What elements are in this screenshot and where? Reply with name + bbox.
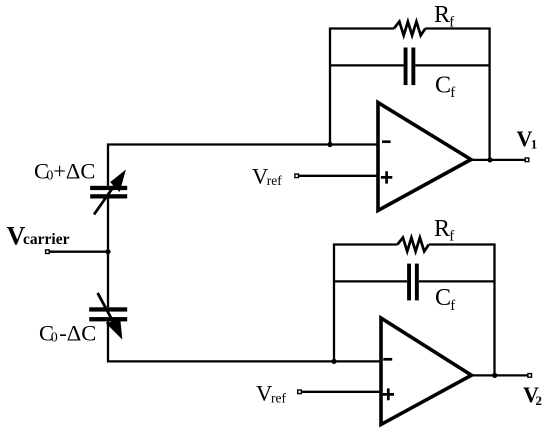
svg-text:ref: ref bbox=[267, 173, 282, 188]
svg-text:f: f bbox=[450, 298, 455, 314]
svg-text:carrier: carrier bbox=[23, 231, 70, 248]
svg-text:C: C bbox=[435, 72, 451, 98]
svg-text:2: 2 bbox=[536, 393, 543, 408]
svg-text:0: 0 bbox=[51, 331, 58, 346]
svg-text:R: R bbox=[434, 2, 450, 28]
svg-text:-ΔC: -ΔC bbox=[59, 321, 96, 346]
svg-text:C: C bbox=[435, 285, 451, 311]
svg-text:f: f bbox=[449, 229, 454, 245]
svg-text:ref: ref bbox=[271, 390, 286, 405]
svg-text:1: 1 bbox=[531, 137, 538, 152]
svg-text:V: V bbox=[256, 381, 272, 406]
svg-text:f: f bbox=[450, 85, 455, 101]
svg-text:f: f bbox=[449, 15, 454, 31]
svg-text:+ΔC: +ΔC bbox=[53, 158, 95, 183]
svg-text:R: R bbox=[434, 216, 450, 242]
